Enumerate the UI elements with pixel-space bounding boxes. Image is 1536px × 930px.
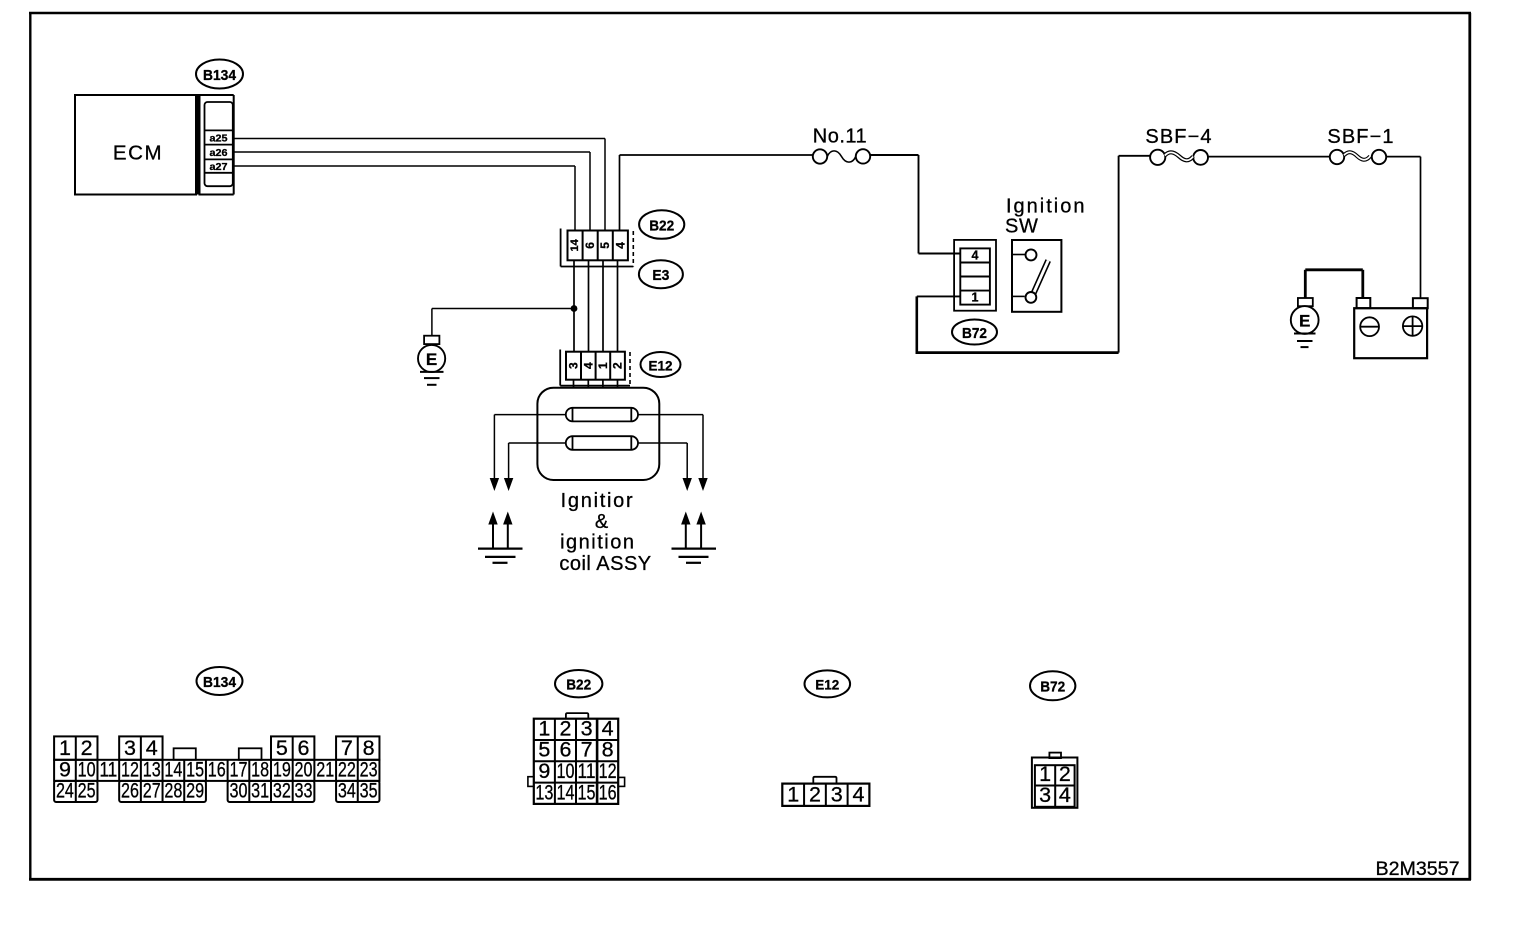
svg-text:7: 7: [341, 736, 353, 760]
svg-text:5: 5: [598, 242, 612, 249]
svg-text:3: 3: [124, 736, 136, 760]
svg-text:4: 4: [853, 782, 865, 806]
svg-text:14: 14: [556, 780, 574, 804]
svg-text:29: 29: [186, 778, 204, 802]
svg-text:SW: SW: [1005, 215, 1038, 237]
svg-text:34: 34: [338, 778, 356, 802]
svg-text:6: 6: [583, 242, 597, 249]
svg-text:B72: B72: [1040, 680, 1065, 696]
svg-text:SBF−1: SBF−1: [1327, 126, 1394, 148]
svg-text:a27: a27: [210, 161, 228, 173]
svg-text:27: 27: [143, 778, 161, 802]
svg-text:3: 3: [831, 782, 843, 806]
svg-text:15: 15: [578, 780, 596, 804]
svg-text:&: &: [595, 511, 609, 533]
svg-text:B2M3557: B2M3557: [1376, 859, 1460, 880]
svg-text:SBF−4: SBF−4: [1145, 126, 1212, 148]
svg-text:1: 1: [787, 782, 799, 806]
svg-text:28: 28: [164, 778, 182, 802]
svg-text:B22: B22: [649, 218, 674, 235]
svg-text:E: E: [426, 350, 437, 369]
svg-text:5: 5: [276, 736, 288, 760]
svg-text:4: 4: [972, 248, 979, 262]
svg-text:ignition: ignition: [560, 532, 635, 554]
svg-text:26: 26: [121, 778, 139, 802]
svg-text:14: 14: [569, 238, 581, 251]
svg-text:2: 2: [611, 362, 625, 369]
svg-text:32: 32: [273, 778, 291, 802]
svg-text:8: 8: [363, 736, 375, 760]
svg-text:1: 1: [972, 291, 979, 305]
svg-text:E3: E3: [652, 267, 669, 284]
svg-text:24: 24: [56, 778, 74, 802]
svg-text:4: 4: [1059, 783, 1071, 807]
svg-text:4: 4: [581, 362, 595, 369]
svg-text:B22: B22: [566, 677, 591, 694]
svg-text:3: 3: [567, 362, 581, 369]
svg-text:B72: B72: [962, 326, 987, 342]
svg-text:6: 6: [298, 736, 310, 760]
svg-text:30: 30: [229, 778, 247, 802]
svg-text:E12: E12: [649, 357, 673, 373]
svg-text:1: 1: [596, 362, 610, 369]
svg-text:11: 11: [99, 757, 117, 781]
svg-text:E12: E12: [815, 677, 839, 693]
svg-text:2: 2: [809, 782, 821, 806]
svg-text:E: E: [1299, 312, 1310, 331]
svg-text:33: 33: [295, 778, 313, 802]
svg-text:B134: B134: [203, 68, 236, 84]
svg-text:21: 21: [316, 757, 334, 781]
svg-text:2: 2: [81, 736, 93, 760]
svg-text:4: 4: [146, 736, 158, 760]
svg-text:16: 16: [599, 780, 617, 804]
svg-text:25: 25: [78, 778, 96, 802]
svg-text:coil ASSY: coil ASSY: [559, 553, 651, 575]
svg-text:31: 31: [251, 778, 269, 802]
svg-text:Ignitior: Ignitior: [561, 490, 635, 512]
svg-text:3: 3: [1039, 783, 1051, 807]
svg-text:13: 13: [535, 780, 553, 804]
svg-text:4: 4: [613, 242, 627, 249]
svg-text:a26: a26: [210, 147, 228, 159]
svg-text:35: 35: [360, 778, 378, 802]
svg-text:ECM: ECM: [113, 142, 163, 165]
svg-text:a25: a25: [210, 133, 228, 145]
svg-text:No.11: No.11: [813, 126, 867, 148]
svg-text:16: 16: [208, 757, 226, 781]
svg-text:B134: B134: [203, 675, 236, 691]
svg-text:1: 1: [59, 736, 71, 760]
